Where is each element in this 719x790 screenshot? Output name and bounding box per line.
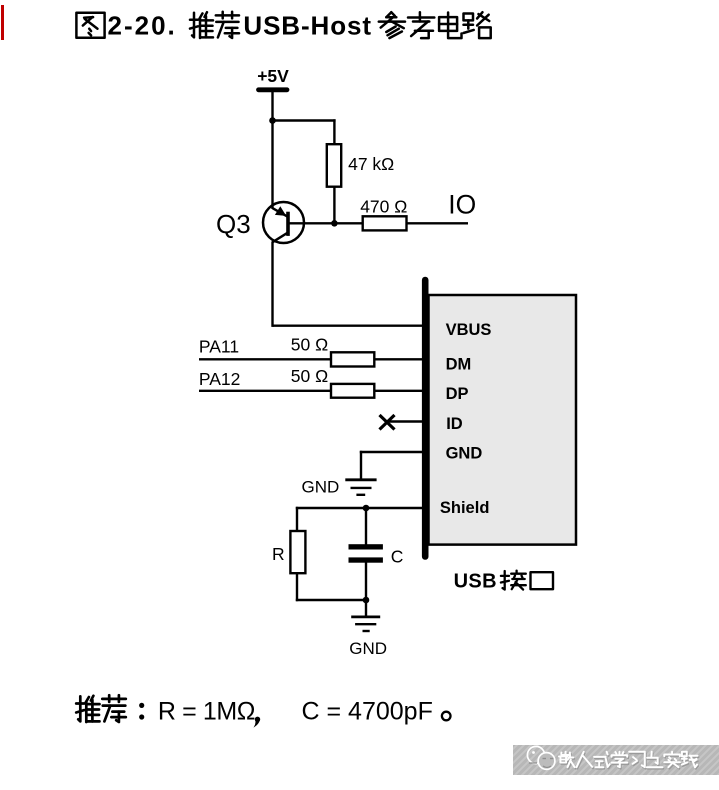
wire collector vertical to VBUS <box>271 242 273 327</box>
svg-text:50 Ω: 50 Ω <box>291 335 328 355</box>
wire emitter vertical from +5V <box>271 90 273 209</box>
wire from node to 47k resistor top <box>273 119 336 121</box>
node junction dot base/470 <box>331 220 338 227</box>
node junction dot shield/C <box>363 505 370 512</box>
figure title caption 图 2-20. 推荐 USB-Host 参考电路 <box>76 13 104 38</box>
wire Shield horizontal <box>296 507 424 509</box>
wire ID pin stub <box>388 420 424 422</box>
svg-text:50 Ω: 50 Ω <box>291 366 328 386</box>
USB connector contact bar <box>422 280 429 557</box>
wire base of Q3 to 470 resistor <box>289 222 364 224</box>
transistor Q3 collector diagonal <box>272 233 287 243</box>
wire GND pin to ground <box>360 451 424 453</box>
resistor R body <box>290 531 305 573</box>
wire 50 ohm to DP pin <box>374 390 424 392</box>
resistor 50 lower body <box>331 384 374 398</box>
svg-text:ID: ID <box>446 415 463 433</box>
wire 470 resistor to IO <box>406 222 468 224</box>
ground symbol lower <box>351 616 380 619</box>
svg-text:Shield: Shield <box>440 499 490 517</box>
note text 推荐：R = 1MΩ，C = 4700pF。 <box>78 696 80 721</box>
svg-text:GND: GND <box>446 445 483 463</box>
svg-text:IO: IO <box>448 189 476 219</box>
capacitor C top plate <box>349 544 383 549</box>
transistor Q3 base bar <box>286 212 290 236</box>
svg-text:GND: GND <box>349 639 387 658</box>
svg-text:VBUS: VBUS <box>446 321 492 339</box>
svg-text:2-20.: 2-20. <box>108 11 177 41</box>
watermark text 嵌入式学习与实践 <box>566 753 568 756</box>
svg-text:PA12: PA12 <box>199 369 241 389</box>
wire R bottom to ground node <box>296 573 298 601</box>
svg-text:C = 4700pF: C = 4700pF <box>302 697 433 725</box>
svg-text:+5V: +5V <box>257 66 289 86</box>
ground symbol upper <box>345 478 376 481</box>
svg-text:GND: GND <box>302 477 340 496</box>
svg-text:R = 1MΩ: R = 1MΩ <box>158 697 255 725</box>
wire 50 ohm to DM pin <box>374 358 424 360</box>
svg-text:470 Ω: 470 Ω <box>360 196 407 216</box>
capacitor C bottom plate <box>349 557 383 562</box>
wire 47k bottom to base node <box>333 187 335 225</box>
wire PA12 to 50 ohm resistor <box>199 390 332 392</box>
wire C top <box>365 508 367 545</box>
wire to lower ground symbol <box>365 600 367 617</box>
wire shield down to R <box>296 507 298 532</box>
svg-text:47 kΩ: 47 kΩ <box>348 154 394 174</box>
USB connector body box <box>429 295 577 545</box>
svg-text:DP: DP <box>446 385 469 403</box>
wire VBUS horizontal <box>273 325 425 327</box>
transistor Q3 emitter diagonal with arrow <box>273 208 287 216</box>
node junction dot at +5V branch <box>269 117 276 124</box>
wire C bottom to ground node <box>365 563 367 602</box>
svg-text:PA11: PA11 <box>199 336 239 356</box>
node junction dot bottom ground <box>363 597 370 604</box>
red revision-bar artifact top-left <box>1 5 4 40</box>
svg-text:DM: DM <box>446 356 472 374</box>
svg-text:C: C <box>391 547 404 567</box>
power +5V bar <box>259 87 288 92</box>
watermark logo icon <box>527 746 544 763</box>
svg-text:R: R <box>272 544 285 564</box>
transistor Q3 circle <box>263 202 304 243</box>
no-connect X on ID pin <box>380 415 395 430</box>
resistor 470 body <box>363 216 407 230</box>
resistor 47k body <box>327 144 341 187</box>
svg-text:Q3: Q3 <box>216 209 251 239</box>
wire PA11 to 50 ohm resistor <box>199 358 332 360</box>
resistor 50 upper body <box>331 352 374 366</box>
svg-text:USB: USB <box>454 571 497 593</box>
svg-text:USB-Host: USB-Host <box>243 11 372 41</box>
